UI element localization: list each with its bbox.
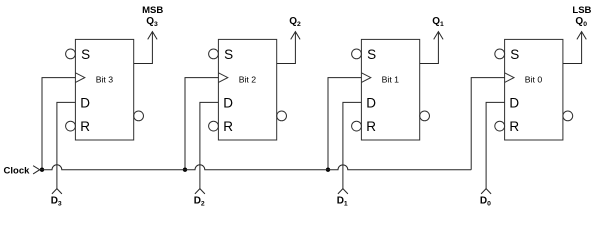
arrow head Q2 bbox=[291, 32, 300, 40]
svg-text:Q0: Q0 bbox=[575, 16, 587, 28]
svg-text:S: S bbox=[224, 47, 233, 62]
clock pin triangle bbox=[218, 73, 227, 83]
pin S bubble bbox=[209, 49, 219, 59]
arrow head Q0 bbox=[577, 32, 586, 40]
svg-text:LSB: LSB bbox=[572, 5, 591, 16]
svg-text:Bit 3: Bit 3 bbox=[96, 74, 114, 84]
wire clock branch to Bit 2 bbox=[185, 78, 218, 170]
wire D2 to D pin of Bit 2 bbox=[200, 102, 219, 188]
svg-text:S: S bbox=[81, 47, 90, 62]
pin R bubble bbox=[495, 121, 505, 131]
svg-text:Q1: Q1 bbox=[432, 16, 444, 28]
svg-text:D: D bbox=[366, 96, 376, 111]
svg-text:Bit 2: Bit 2 bbox=[239, 74, 257, 84]
wire clock rail bbox=[40, 165, 472, 170]
svg-text:D1: D1 bbox=[337, 195, 348, 207]
wire D3 to D pin of Bit 3 bbox=[57, 102, 76, 188]
Bit 0 body bbox=[505, 39, 563, 140]
input terminal caret D3 bbox=[52, 189, 62, 194]
flip-flop Bit 1 bbox=[352, 39, 430, 140]
pin Q-bar bubble bbox=[277, 111, 287, 121]
svg-text:D0: D0 bbox=[480, 195, 491, 207]
svg-text:S: S bbox=[510, 47, 519, 62]
Bit 2 body bbox=[218, 39, 276, 140]
svg-text:Bit 0: Bit 0 bbox=[525, 74, 543, 84]
wire Q0 output bbox=[563, 33, 582, 64]
svg-text:D3: D3 bbox=[51, 195, 62, 207]
clock pin triangle bbox=[75, 73, 84, 83]
arrow head Q3 bbox=[148, 32, 157, 40]
wire clock branch to Bit 1 bbox=[328, 78, 361, 170]
junction dot clock/Bit 1 bbox=[326, 168, 330, 172]
svg-text:Clock: Clock bbox=[4, 166, 31, 177]
input terminal caret Clock bbox=[33, 166, 40, 174]
svg-text:R: R bbox=[509, 119, 519, 134]
pin S bubble bbox=[66, 49, 76, 59]
pin R bubble bbox=[352, 121, 362, 131]
clock pin triangle bbox=[505, 73, 514, 83]
svg-text:Q2: Q2 bbox=[289, 16, 301, 28]
wire D0 to D pin of Bit 0 bbox=[486, 102, 505, 188]
pin R bubble bbox=[66, 121, 76, 131]
svg-text:D: D bbox=[509, 96, 519, 111]
svg-text:D: D bbox=[223, 96, 233, 111]
svg-text:R: R bbox=[80, 119, 90, 134]
input terminal caret D2 bbox=[195, 189, 205, 194]
pin R bubble bbox=[209, 121, 219, 131]
flip-flop Bit 2 bbox=[209, 39, 287, 140]
wire clock branch to Bit 0 bbox=[471, 78, 504, 170]
svg-text:D2: D2 bbox=[194, 195, 205, 207]
svg-text:S: S bbox=[367, 47, 376, 62]
junction dot clock/Bit 3 bbox=[40, 168, 44, 172]
svg-text:MSB: MSB bbox=[142, 5, 163, 16]
svg-text:R: R bbox=[223, 119, 233, 134]
junction dot clock/Bit 2 bbox=[183, 168, 187, 172]
pin S bubble bbox=[352, 49, 362, 59]
svg-text:R: R bbox=[366, 119, 376, 134]
pin Q-bar bubble bbox=[563, 111, 573, 121]
input terminal caret D1 bbox=[338, 189, 348, 194]
arrow head Q1 bbox=[434, 32, 443, 40]
input terminal caret D0 bbox=[481, 189, 491, 194]
wire Q3 output bbox=[134, 33, 153, 64]
svg-text:D: D bbox=[80, 96, 90, 111]
pin S bubble bbox=[495, 49, 505, 59]
flip-flop Bit 0 bbox=[495, 39, 573, 140]
wire clock branch to Bit 3 bbox=[42, 78, 75, 170]
wire D1 to D pin of Bit 1 bbox=[343, 102, 362, 188]
pin Q-bar bubble bbox=[420, 111, 430, 121]
wire Q2 output bbox=[277, 33, 296, 64]
pin Q-bar bubble bbox=[134, 111, 144, 121]
wire Q1 output bbox=[420, 33, 439, 64]
flip-flop Bit 3 bbox=[66, 39, 144, 140]
Bit 1 body bbox=[361, 39, 419, 140]
clock pin triangle bbox=[361, 73, 370, 83]
svg-text:Q3: Q3 bbox=[146, 16, 158, 28]
Bit 3 body bbox=[75, 39, 133, 140]
svg-text:Bit 1: Bit 1 bbox=[382, 74, 400, 84]
